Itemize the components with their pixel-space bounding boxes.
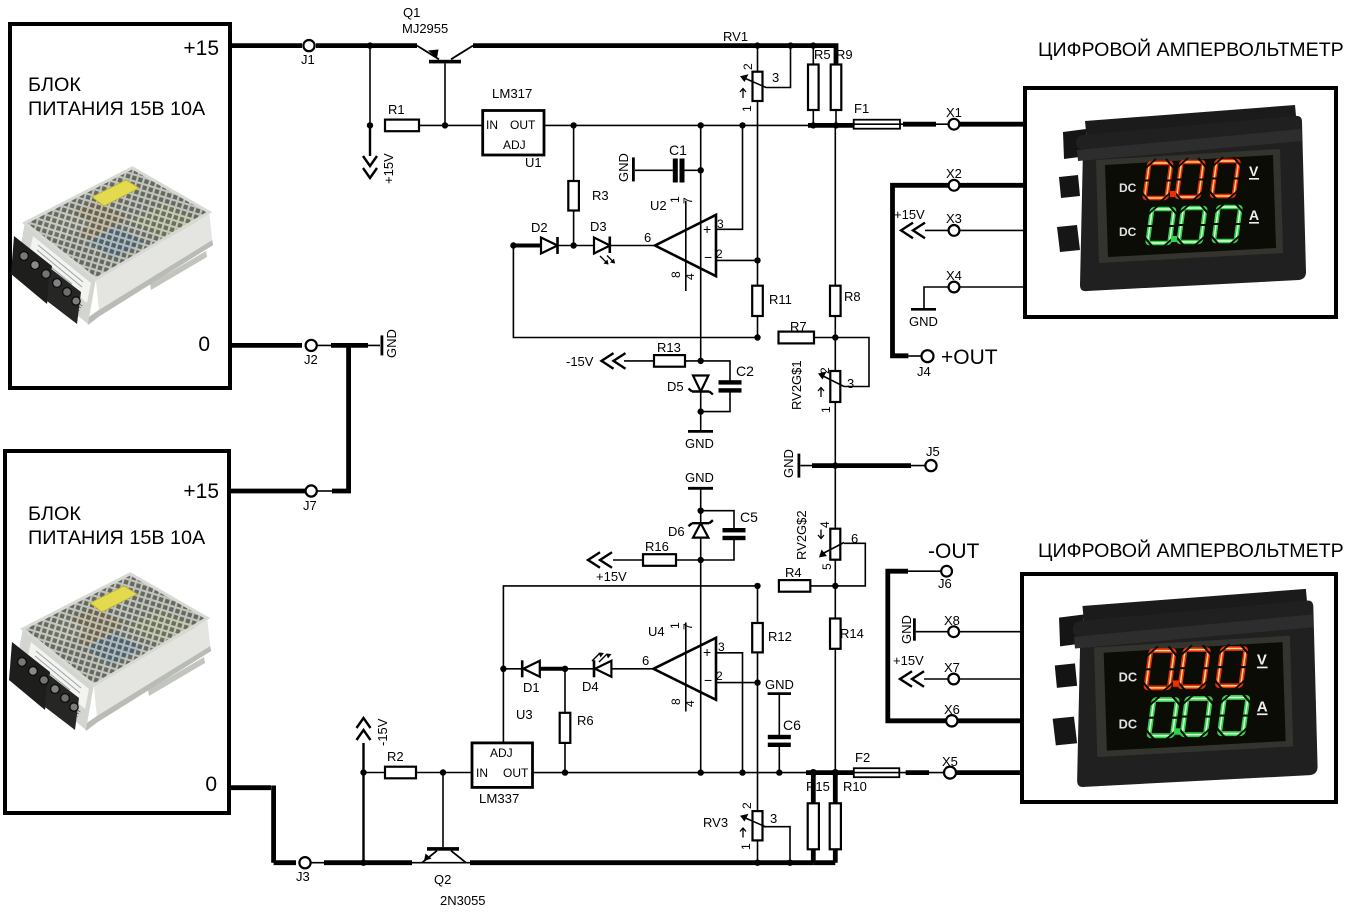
transistor Q2 bbox=[422, 773, 466, 863]
svg-text:R5: R5 bbox=[814, 47, 831, 62]
svg-text:1: 1 bbox=[668, 622, 682, 629]
svg-text:OUT: OUT bbox=[510, 118, 536, 132]
svg-text:1: 1 bbox=[739, 843, 753, 850]
svg-text:R7: R7 bbox=[790, 319, 807, 334]
wire J3 to Q2 bbox=[311, 862, 470, 864]
svg-text:J4: J4 bbox=[917, 364, 931, 379]
node dot F2 R15 bbox=[810, 769, 817, 776]
svg-text:5: 5 bbox=[820, 563, 834, 570]
node dot D1 ADJ bbox=[500, 666, 506, 672]
svg-text:1: 1 bbox=[668, 196, 682, 203]
resistor R12 bbox=[752, 586, 763, 811]
svg-text:Q1: Q1 bbox=[403, 5, 420, 20]
led D4 bbox=[565, 653, 653, 678]
wire +15 rail thick bbox=[230, 43, 836, 64]
svg-text:GND: GND bbox=[685, 470, 714, 485]
svg-text:C6: C6 bbox=[783, 717, 801, 733]
wire R1 branch bbox=[369, 46, 371, 126]
node dot R7 RV2 bbox=[832, 334, 838, 340]
node dot R4 R12 bbox=[754, 583, 760, 589]
svg-text:1: 1 bbox=[819, 406, 833, 413]
zener D5 bbox=[689, 376, 713, 412]
wire X6 to J6 bbox=[888, 571, 946, 721]
led D3 bbox=[574, 237, 655, 265]
wire F1 to X1 bbox=[900, 123, 949, 125]
resistor R1 bbox=[385, 120, 446, 132]
node dot D5 top bbox=[698, 358, 704, 364]
svg-text:ЦИФРОВОЙ АМПЕРВОЛЬТМЕТР: ЦИФРОВОЙ АМПЕРВОЛЬТМЕТР bbox=[1038, 37, 1344, 61]
potentiometer RV1 bbox=[740, 46, 791, 261]
svg-text:−: − bbox=[704, 249, 712, 265]
node dot pin2 U2 bbox=[754, 257, 760, 263]
wire X7 bbox=[924, 678, 1022, 680]
power flag -15V left arrow bbox=[602, 353, 626, 369]
node dot RV3 pin1 rail bbox=[754, 860, 760, 866]
ground X8 bbox=[913, 618, 948, 640]
svg-text:R13: R13 bbox=[657, 340, 681, 355]
fuse F2 bbox=[854, 768, 900, 777]
wire ADJ U3 riser bbox=[503, 586, 757, 743]
node dot -15V rail bbox=[360, 860, 366, 866]
svg-text:J2: J2 bbox=[304, 352, 318, 367]
capacitor C6 bbox=[768, 694, 791, 773]
resistor R11 bbox=[752, 260, 763, 337]
node dot rail R1 bbox=[367, 42, 373, 48]
node dot rail RV1 bbox=[754, 42, 760, 48]
svg-text:R11: R11 bbox=[769, 292, 792, 307]
svg-text:R6: R6 bbox=[577, 713, 594, 728]
svg-text:1: 1 bbox=[740, 105, 754, 112]
ground D5 bbox=[688, 412, 713, 432]
node dot Q2 base bbox=[440, 769, 446, 775]
svg-text:+15V: +15V bbox=[381, 153, 396, 184]
svg-text:J7: J7 bbox=[303, 498, 317, 513]
transistor Q1 bbox=[417, 46, 473, 126]
wire J2 to J7 riser bbox=[332, 345, 349, 491]
svg-text:LM317: LM317 bbox=[492, 86, 532, 101]
svg-text:R3: R3 bbox=[592, 188, 609, 203]
node dot D2 ADJ bbox=[510, 242, 516, 248]
svg-text:GND: GND bbox=[616, 153, 631, 182]
svg-text:4: 4 bbox=[683, 273, 697, 280]
PSU photo 1 bbox=[11, 168, 213, 325]
node dot D6 top bbox=[698, 508, 704, 514]
node dot rail RV1 pin3 bbox=[787, 42, 793, 48]
svg-text:ЦИФРОВОЙ АМПЕРВОЛЬТМЕТР: ЦИФРОВОЙ АМПЕРВОЛЬТМЕТР bbox=[1038, 538, 1344, 562]
node dot R1 left bbox=[367, 122, 373, 128]
node dot F2 R10 bbox=[832, 769, 839, 776]
connector X3 bbox=[949, 225, 960, 236]
wire box2 0 to J3 bbox=[228, 786, 296, 863]
svg-text:J3: J3 bbox=[296, 869, 310, 884]
svg-text:-OUT: -OUT bbox=[928, 540, 979, 563]
potentiometer RV3 bbox=[740, 811, 790, 863]
svg-text:6: 6 bbox=[642, 653, 649, 668]
svg-text:X3: X3 bbox=[946, 211, 962, 226]
wire C5 node vertical bbox=[700, 560, 702, 773]
svg-text:-15V: -15V bbox=[566, 354, 594, 369]
connector X7 bbox=[948, 674, 959, 685]
resistor R5 bbox=[808, 46, 819, 126]
connector J5 bbox=[925, 460, 936, 471]
zener D6 bbox=[689, 511, 713, 560]
regulator U1 LM317 bbox=[483, 111, 544, 156]
capacitor C5 bbox=[701, 511, 746, 560]
connector J1 bbox=[303, 40, 314, 51]
svg-text:3: 3 bbox=[717, 217, 724, 231]
svg-text:C5: C5 bbox=[740, 509, 758, 525]
resistor R13 bbox=[624, 355, 701, 367]
wire OUT line bbox=[544, 124, 810, 126]
svg-text:ПИТАНИЯ 15В 10А: ПИТАНИЯ 15В 10А bbox=[28, 98, 206, 120]
svg-text:IN: IN bbox=[476, 766, 488, 780]
svg-text:U2: U2 bbox=[650, 198, 667, 213]
node dot J5 bar RV2 bbox=[832, 462, 838, 468]
connector X6 bbox=[946, 715, 957, 726]
svg-text:X4: X4 bbox=[946, 268, 962, 283]
node dot C6 bottom bbox=[776, 769, 782, 775]
svg-text:2: 2 bbox=[716, 669, 723, 683]
PSU box 1 label bbox=[28, 37, 219, 356]
node dot D5 bottom bbox=[698, 408, 704, 414]
ground J2 bbox=[381, 335, 384, 355]
connector J2 bbox=[306, 340, 317, 351]
svg-text:2N3055: 2N3055 bbox=[440, 893, 486, 908]
svg-text:D1: D1 bbox=[523, 680, 540, 695]
svg-text:R10: R10 bbox=[843, 779, 867, 794]
svg-text:D2: D2 bbox=[531, 220, 548, 235]
resistor R14 bbox=[830, 586, 841, 773]
wire X8 to meter bbox=[959, 631, 1022, 633]
node dot Q1 base / IN bbox=[442, 122, 448, 128]
wire OUT line bottom bbox=[533, 772, 811, 774]
node dot RV3 wiper rail bbox=[787, 860, 793, 866]
meter photo 2 bbox=[1053, 589, 1318, 787]
node dot R6 bottom bbox=[562, 769, 568, 775]
svg-text:D4: D4 bbox=[582, 679, 599, 694]
svg-text:R4: R4 bbox=[785, 565, 802, 580]
capacitor C1 bbox=[635, 159, 701, 183]
svg-text:+OUT: +OUT bbox=[941, 346, 998, 369]
svg-text:3: 3 bbox=[770, 811, 777, 826]
svg-text:+15: +15 bbox=[183, 37, 219, 60]
svg-text:F1: F1 bbox=[854, 101, 869, 116]
svg-text:GND: GND bbox=[909, 314, 938, 329]
node dot OUT R9 bbox=[833, 122, 839, 128]
wire X2 to +OUT bbox=[893, 185, 949, 355]
svg-text:U1: U1 bbox=[525, 155, 542, 170]
connector J7 bbox=[306, 485, 317, 496]
svg-text:R8: R8 bbox=[844, 289, 861, 304]
node dot OUT C1 bbox=[698, 122, 704, 128]
node dot pin2 R12 bbox=[754, 679, 760, 685]
connector X1 bbox=[949, 119, 960, 130]
node dot D6 bottom bbox=[698, 557, 704, 563]
connector X5 bbox=[944, 767, 956, 779]
svg-text:X7: X7 bbox=[944, 660, 960, 675]
node dot OUT R3 bbox=[570, 122, 576, 128]
svg-text:LM337: LM337 bbox=[479, 791, 519, 806]
wire J7 stub bbox=[317, 490, 332, 492]
wire F2 to X5 bbox=[899, 772, 944, 774]
node dot D2 R3 bbox=[570, 242, 576, 248]
svg-text:R14: R14 bbox=[840, 626, 864, 641]
resistor R6 bbox=[560, 669, 571, 773]
svg-text:OUT: OUT bbox=[503, 766, 529, 780]
svg-text:2: 2 bbox=[818, 367, 832, 374]
node dot R4 RV2b bbox=[832, 583, 838, 589]
svg-text:R1: R1 bbox=[388, 102, 405, 117]
svg-text:R2: R2 bbox=[387, 749, 404, 764]
svg-text:D5: D5 bbox=[667, 379, 684, 394]
svg-text:GND: GND bbox=[685, 436, 714, 451]
wire C1 node vertical bbox=[700, 125, 702, 361]
wire X1 to meter bbox=[960, 122, 1026, 127]
resistor R2 bbox=[364, 767, 473, 779]
resistor R7 bbox=[779, 332, 836, 344]
wire stub J6 bbox=[908, 570, 941, 572]
opamp U2 bbox=[655, 125, 758, 291]
svg-text:6: 6 bbox=[851, 531, 858, 546]
svg-text:U3: U3 bbox=[516, 707, 533, 722]
power flag +15V left arrow X7 bbox=[900, 671, 924, 687]
wire X3 bbox=[925, 229, 1025, 231]
meter box 2 frame bbox=[1022, 574, 1336, 802]
node dot rail R5 bbox=[810, 42, 816, 48]
wire stub J4 bbox=[908, 355, 921, 357]
resistor R9 bbox=[831, 65, 842, 126]
node dot D1 R6 bbox=[562, 666, 568, 672]
connector J3 bbox=[299, 857, 310, 868]
svg-text:0: 0 bbox=[205, 773, 217, 796]
svg-text:2: 2 bbox=[741, 63, 755, 70]
svg-text:RV2G$1: RV2G$1 bbox=[789, 360, 804, 410]
wire X2 to meter bbox=[960, 183, 1026, 188]
fuse F1 bbox=[854, 120, 900, 129]
PSU box 2 frame bbox=[5, 451, 229, 813]
svg-text:C2: C2 bbox=[736, 363, 754, 379]
resistor R8 bbox=[830, 125, 841, 337]
svg-text:+15: +15 bbox=[183, 480, 219, 503]
svg-text:2: 2 bbox=[716, 247, 723, 261]
PSU photo 2 bbox=[9, 574, 211, 731]
meter photo 1 bbox=[1057, 105, 1306, 291]
svg-text:J6: J6 bbox=[938, 576, 952, 591]
svg-text:ADJ: ADJ bbox=[503, 138, 526, 152]
wire OUT line thick to F1 bbox=[808, 123, 854, 128]
potentiometer RV2G$2 bbox=[818, 466, 865, 586]
svg-text:X6: X6 bbox=[944, 702, 960, 717]
ground D6 bbox=[688, 488, 713, 510]
ground C6 bbox=[768, 692, 791, 695]
svg-text:3: 3 bbox=[718, 640, 725, 654]
svg-text:8: 8 bbox=[669, 271, 683, 278]
wire X4 bbox=[924, 287, 1025, 308]
svg-text:+15V: +15V bbox=[894, 207, 925, 222]
wire OUT line bottom thick to F2 bbox=[806, 770, 854, 775]
power flag +15V left arrow R16 bbox=[588, 552, 612, 568]
connector X4 bbox=[949, 282, 960, 293]
svg-text:D3: D3 bbox=[590, 219, 607, 234]
resistor R4 bbox=[779, 580, 835, 592]
svg-text:X5: X5 bbox=[942, 754, 958, 769]
svg-text:R12: R12 bbox=[768, 629, 792, 644]
svg-text:R15: R15 bbox=[806, 779, 830, 794]
svg-text:RV3: RV3 bbox=[703, 815, 728, 830]
connector J4 bbox=[922, 350, 934, 362]
svg-text:GND: GND bbox=[765, 677, 794, 692]
opamp U4 bbox=[653, 623, 757, 773]
resistor R15 bbox=[808, 773, 819, 863]
svg-text:RV1: RV1 bbox=[723, 29, 748, 44]
svg-text:U4: U4 bbox=[648, 624, 665, 639]
svg-text:БЛОК: БЛОК bbox=[28, 503, 81, 525]
svg-text:C1: C1 bbox=[669, 142, 687, 158]
connector X8 bbox=[948, 626, 959, 637]
svg-text:X1: X1 bbox=[946, 105, 962, 120]
connector X2 bbox=[949, 180, 960, 191]
resistor R10 bbox=[830, 773, 841, 863]
wire box2 +15 to J7 bbox=[229, 489, 305, 494]
svg-text:X8: X8 bbox=[944, 613, 960, 628]
svg-text:GND: GND bbox=[781, 449, 796, 478]
svg-text:J5: J5 bbox=[926, 444, 940, 459]
svg-text:БЛОК: БЛОК bbox=[28, 74, 81, 96]
meter box 1 frame bbox=[1025, 88, 1336, 317]
node dot OUT R5 bbox=[810, 122, 816, 128]
wire J2 to GND bbox=[317, 344, 380, 346]
PSU box 1 frame bbox=[10, 24, 230, 388]
svg-text:0: 0 bbox=[198, 333, 210, 356]
svg-text:4: 4 bbox=[683, 700, 697, 707]
svg-text:F2: F2 bbox=[855, 750, 870, 765]
wire Q2 collector rail thick bbox=[470, 860, 813, 865]
node dot ADJ line R7 bbox=[754, 334, 760, 340]
svg-text:D6: D6 bbox=[668, 524, 685, 539]
wire box1 0 to J2 bbox=[230, 343, 302, 348]
resistor R3 bbox=[568, 125, 579, 245]
PSU box 2 label bbox=[28, 480, 219, 796]
diode D2 bbox=[513, 237, 573, 254]
svg-text:MJ2955: MJ2955 bbox=[402, 21, 448, 36]
svg-text:R9: R9 bbox=[836, 47, 853, 62]
svg-text:7: 7 bbox=[681, 623, 695, 630]
svg-text:RV2G$2: RV2G$2 bbox=[794, 510, 809, 560]
resistor R16 bbox=[613, 554, 701, 566]
svg-text:3: 3 bbox=[772, 70, 779, 85]
svg-text:3: 3 bbox=[847, 376, 854, 391]
ground bar J5 bbox=[798, 454, 926, 478]
potentiometer RV2G$1 bbox=[818, 338, 869, 466]
svg-text:X2: X2 bbox=[946, 166, 962, 181]
svg-text:+15V: +15V bbox=[893, 653, 924, 668]
svg-text:GND: GND bbox=[384, 329, 399, 358]
node dot R2 left bbox=[360, 769, 366, 775]
node dot C1 bbox=[698, 167, 704, 173]
ground X4 bbox=[911, 308, 936, 311]
wire IN bbox=[446, 124, 483, 126]
svg-text:−: − bbox=[704, 672, 712, 688]
node dot OUT pin3 bbox=[739, 122, 745, 128]
svg-text:+15V: +15V bbox=[596, 569, 627, 584]
capacitor C2 bbox=[701, 361, 742, 412]
svg-text:-15V: -15V bbox=[375, 718, 390, 746]
svg-text:R16: R16 bbox=[645, 539, 669, 554]
svg-text:GND: GND bbox=[899, 615, 914, 644]
svg-text:J1: J1 bbox=[301, 52, 315, 67]
svg-text:2: 2 bbox=[740, 802, 754, 809]
regulator U3 LM337 bbox=[472, 743, 533, 788]
wire X5 to meter bbox=[956, 770, 1022, 775]
wire ADJ feedback bbox=[513, 246, 757, 338]
svg-text:ПИТАНИЯ 15В 10А: ПИТАНИЯ 15В 10А bbox=[28, 527, 206, 549]
power flag -15V up arrow bbox=[357, 718, 371, 863]
wire rail R15 R10 bbox=[813, 860, 835, 865]
svg-text:+: + bbox=[703, 221, 711, 237]
svg-text:+: + bbox=[703, 644, 711, 660]
svg-text:8: 8 bbox=[669, 698, 683, 705]
svg-text:Q2: Q2 bbox=[434, 872, 451, 887]
svg-text:ADJ: ADJ bbox=[490, 746, 513, 760]
wire X6 to meter bbox=[958, 718, 1023, 723]
connector J6 bbox=[941, 566, 952, 577]
svg-text:IN: IN bbox=[486, 118, 498, 132]
ground C1 bbox=[632, 157, 635, 181]
svg-text:6: 6 bbox=[644, 230, 651, 245]
node dot pin3 bottom bbox=[739, 769, 745, 775]
node dot U4 power bbox=[698, 769, 704, 775]
svg-text:4: 4 bbox=[818, 521, 832, 528]
svg-text:7: 7 bbox=[681, 197, 695, 204]
diode D1 bbox=[503, 660, 565, 677]
power flag +15V left arrow X3 bbox=[901, 223, 925, 239]
power flag +15V down arrow bbox=[363, 125, 377, 178]
